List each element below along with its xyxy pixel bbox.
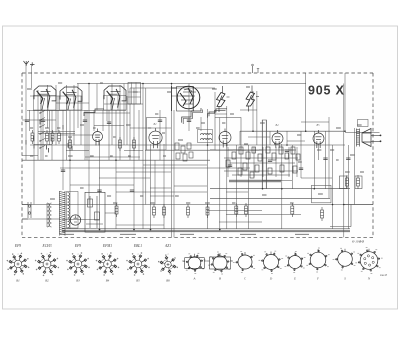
wire speaker feed (345, 131, 380, 133)
electrolytic capacitor block (85, 192, 105, 232)
wire (49, 110, 51, 145)
wire (51, 110, 53, 160)
IF coil windings (201, 134, 212, 140)
wire (116, 171, 171, 173)
wire (174, 185, 207, 187)
wire (99, 141, 101, 229)
capacitor C9 (97, 190, 101, 192)
wire (343, 84, 345, 238)
coil unit box 3 (104, 96, 127, 111)
resistor R20 (321, 207, 324, 221)
wire AVC bus (22, 159, 210, 161)
wave band switch contacts (40, 111, 46, 149)
tube socket B1 (EF9) bottom view (7, 253, 30, 276)
electrolytic internals (86, 196, 103, 228)
resistor R14 (163, 204, 166, 218)
capacitor C27 (323, 158, 327, 160)
connector A bottom view (182, 253, 207, 273)
wire (33, 110, 35, 205)
wire (27, 110, 66, 112)
wire (219, 221, 262, 223)
grid cap stub 1 (252, 66, 254, 73)
wire (256, 91, 258, 145)
rectifier AZ1 circle (70, 215, 80, 225)
wire (235, 145, 237, 229)
IF transformer can 2 (215, 118, 241, 151)
mains voltage selector (22, 202, 31, 219)
wire (93, 110, 95, 131)
wire (60, 134, 94, 136)
tube socket B4 (EFM1) bottom view (96, 252, 120, 276)
wire (287, 140, 305, 142)
wire (124, 150, 143, 152)
wire (73, 85, 75, 145)
wire step coupling 3 (84, 109, 104, 116)
wire (34, 144, 52, 146)
capacitor C15 (187, 120, 191, 122)
schematic dashed border bottom (22, 236, 373, 238)
wire HT bus top (77, 83, 306, 85)
tube EBF2 diode-pentode symbol (217, 86, 230, 112)
wire (111, 84, 113, 146)
connector F bottom view (306, 248, 329, 272)
wire (269, 131, 271, 145)
tube EFM1 round envelope (172, 86, 200, 111)
wire (96, 84, 98, 111)
wire (226, 191, 248, 193)
wire (248, 145, 250, 229)
wire (85, 156, 140, 158)
wire (40, 96, 42, 160)
oscillator coil internals (128, 83, 141, 105)
svg-text:max18: max18 (380, 274, 388, 277)
wire (55, 85, 57, 145)
wire (119, 85, 121, 160)
wire (126, 96, 128, 145)
wire step coupling 2 (182, 108, 201, 123)
component value labels (27, 83, 364, 203)
wire (325, 131, 327, 189)
wire (207, 109, 209, 229)
grid cap stub 2 (257, 69, 259, 74)
wire (281, 144, 283, 229)
wire (240, 109, 257, 111)
svg-text:B: B (219, 277, 221, 281)
wire (29, 110, 31, 131)
resistor R12 (187, 204, 190, 218)
wire (77, 84, 79, 129)
wire (116, 224, 164, 226)
chassis earth bar (62, 228, 350, 230)
wire (84, 110, 86, 160)
wire (171, 95, 189, 97)
wire (99, 177, 150, 179)
wire output return riser (350, 205, 352, 227)
svg-text:B3: B3 (76, 279, 80, 283)
resistor R18 (291, 203, 294, 217)
wire (163, 144, 165, 229)
wire HT supply rail (22, 204, 373, 206)
connector S bottom view (333, 248, 356, 270)
wire (150, 144, 152, 229)
tube base circle V1 (93, 129, 103, 146)
svg-text:A: A (193, 277, 196, 281)
wire (108, 110, 110, 160)
earth terminal (30, 62, 35, 66)
wire (116, 191, 207, 193)
svg-text:B4: B4 (106, 279, 110, 283)
resistor R5 (69, 137, 72, 151)
capacitor C25 (299, 168, 303, 170)
capacitor C12 (158, 120, 162, 122)
wire (354, 128, 356, 205)
resistor R11 (153, 204, 156, 218)
transformer secondary winding (68, 193, 70, 228)
field coil resistor (340, 176, 347, 189)
wire (66, 150, 89, 152)
wire (31, 65, 33, 88)
wire (300, 131, 302, 178)
capacitor C1 (25, 120, 29, 122)
resistor R10 (115, 203, 118, 217)
wire (133, 88, 135, 229)
schematic dashed border left (21, 73, 23, 237)
wire (344, 73, 346, 131)
wire (47, 85, 49, 128)
connector D bottom view (259, 251, 284, 274)
schematic dashed border top (22, 72, 373, 74)
wire (347, 145, 349, 229)
wire (70, 184, 134, 186)
tube socket B6 (AZ1) bottom view (158, 254, 178, 274)
resistor R16 (245, 203, 248, 217)
wire mains lead (22, 218, 60, 220)
output transformer winding (357, 129, 360, 147)
wire (22, 119, 56, 121)
svg-text:B5: B5 (136, 279, 140, 283)
wire (252, 91, 254, 131)
tube section frequency changer (60, 87, 82, 110)
capacitor C28 (346, 158, 350, 160)
resistor R22 (357, 175, 360, 189)
wire (85, 112, 130, 114)
resistor R15 (235, 203, 238, 217)
svg-text:EFM1: EFM1 (102, 244, 112, 248)
wire (200, 117, 202, 131)
resistor R7 (133, 137, 136, 151)
volume control strip (262, 120, 266, 189)
wire (115, 110, 117, 229)
resistor R21 (346, 175, 349, 189)
schematic dashed border right (372, 73, 374, 237)
svg-text:AZ1: AZ1 (164, 244, 171, 248)
wire (214, 92, 216, 118)
wire (143, 164, 207, 166)
tube base circle V5 (313, 130, 324, 148)
wire (343, 204, 373, 206)
wire (30, 95, 60, 97)
wire (262, 180, 292, 182)
wire (332, 145, 334, 229)
wire (69, 110, 71, 229)
wire (42, 110, 44, 160)
wire (88, 84, 90, 205)
resistor R4 (58, 130, 61, 144)
wire primary left (46, 203, 48, 227)
caption marks above bottom border (60, 233, 309, 235)
resistor R13 (206, 204, 209, 218)
wire (106, 96, 108, 121)
tube base circle V2 (149, 128, 162, 148)
IF transformer can 1 (147, 118, 167, 151)
capacitor C8 (107, 122, 111, 124)
oscillator coil box (128, 83, 141, 105)
wire (150, 187, 171, 189)
tone network box (312, 185, 332, 203)
resistor R3 (51, 130, 54, 144)
wire (226, 214, 301, 216)
wire (130, 127, 171, 129)
tube section RF coil unit 1 (34, 86, 56, 110)
svg-text:EBL1: EBL1 (133, 244, 142, 248)
wire (159, 110, 161, 160)
svg-text:ECH3: ECH3 (42, 244, 52, 248)
resistor R6 (119, 137, 122, 151)
wire (138, 110, 140, 160)
detector network cluster (224, 147, 300, 178)
wire (105, 212, 116, 214)
wire (86, 110, 88, 160)
wire (57, 96, 59, 131)
svg-text:Ø 10⊕⊖: Ø 10⊕⊖ (351, 240, 364, 244)
wire (265, 120, 267, 189)
wire anode bus (240, 130, 345, 132)
wire (318, 144, 320, 160)
wire (38, 133, 75, 135)
transformer shield box (67, 192, 79, 229)
socket N inner pins (364, 255, 375, 266)
loudspeaker cone (362, 129, 371, 147)
vertical value labels (26, 120, 72, 153)
wire (248, 136, 270, 138)
tube section IF amplifier (104, 86, 126, 110)
tuning gang frame bar (229, 180, 281, 182)
wire (38, 131, 75, 133)
wire (226, 106, 228, 229)
wire (37, 90, 39, 160)
svg-text:EF9: EF9 (74, 244, 81, 248)
wire (301, 177, 332, 179)
wire (62, 219, 99, 221)
connector B bottom view (207, 252, 233, 274)
wire (219, 118, 221, 230)
capacitor C2 (41, 120, 45, 122)
wire step coupling 2b (183, 110, 202, 125)
tube socket B3 (EF9) bottom view (66, 252, 90, 276)
wire (102, 110, 104, 131)
capacitor C30 (130, 190, 134, 192)
wire (123, 84, 125, 146)
capacitor C4 (61, 170, 65, 172)
wire screen bus (30, 144, 345, 146)
wire (94, 125, 124, 127)
wire (104, 103, 143, 105)
coil unit box 1 (34, 96, 57, 111)
tube socket B5 (EBL1) bottom view (126, 252, 150, 276)
tube socket B2 (ECH3) bottom view (35, 252, 59, 276)
wire (80, 96, 82, 145)
wire (239, 131, 241, 145)
hum bucking coil (355, 176, 362, 189)
wire (129, 88, 131, 160)
wire (56, 102, 89, 104)
wire (150, 195, 174, 197)
svg-text:E: E (293, 277, 296, 281)
tube EBL1 output pentode symbol (246, 86, 259, 112)
wire (215, 113, 227, 115)
wire top interstage (130, 87, 215, 89)
wire (262, 120, 264, 189)
resistor R2 (46, 130, 49, 144)
power transformer core (60, 192, 66, 235)
capacitor C22 (268, 160, 272, 162)
wire (154, 160, 156, 205)
connector E bottom view (285, 251, 306, 272)
svg-text:B1: B1 (16, 279, 20, 283)
wire (305, 73, 307, 131)
svg-text:B2: B2 (45, 279, 49, 283)
capacitor C5 (83, 120, 87, 122)
svg-text:905 X: 905 X (308, 84, 345, 98)
wire (328, 117, 330, 198)
wire step coupling 1b (208, 110, 226, 118)
wire (188, 84, 190, 132)
capacitor C24 (285, 150, 289, 152)
wire step coupling 1 (209, 109, 227, 117)
wire (25, 65, 27, 160)
tube base circle V3 (219, 129, 231, 148)
wire output return (330, 226, 351, 228)
wire (173, 110, 175, 237)
svg-text:EF9: EF9 (14, 244, 21, 248)
coil unit dividers (41, 96, 118, 111)
tube base circle V4 (272, 130, 283, 148)
wire (142, 84, 144, 230)
wire IF bottom (145, 149, 260, 151)
resistor R1 (31, 130, 34, 144)
svg-text:B6: B6 (166, 279, 170, 283)
wire (171, 84, 173, 238)
coil unit box 2 (60, 96, 83, 110)
wire AF bus (210, 197, 330, 199)
wire (66, 85, 68, 160)
transformer primary winding (47, 203, 52, 227)
wire coil box bottoms (33, 109, 126, 111)
speaker terminal leads (371, 135, 380, 141)
wire (145, 88, 147, 205)
antenna terminal (24, 61, 29, 66)
wire (62, 110, 64, 190)
wire (22, 155, 38, 157)
IF coil box (198, 130, 213, 143)
wire (192, 86, 194, 111)
wire (301, 121, 329, 123)
capacitor C20 (228, 165, 232, 167)
wire (291, 145, 293, 189)
wire grid return (60, 167, 250, 169)
connector C bottom view (233, 252, 255, 273)
wire (286, 131, 288, 145)
wire (313, 131, 315, 189)
chassis shading bar (62, 230, 350, 232)
connector N bottom view (355, 248, 382, 274)
wire detector bus (210, 188, 350, 190)
wire (207, 210, 262, 212)
svg-text:F: F (316, 277, 319, 281)
output transformer box (358, 120, 369, 127)
oscillator padder cluster (175, 143, 193, 161)
